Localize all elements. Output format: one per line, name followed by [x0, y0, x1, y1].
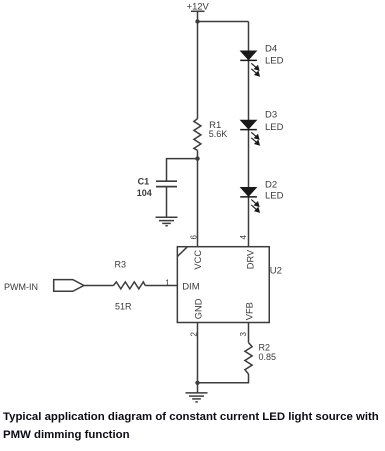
- svg-text:LED: LED: [265, 56, 284, 67]
- svg-text:C1: C1: [138, 176, 150, 186]
- svg-text:D3: D3: [265, 110, 277, 121]
- svg-text:U2: U2: [270, 266, 282, 277]
- svg-text:1: 1: [165, 279, 170, 288]
- svg-text:VCC: VCC: [193, 250, 203, 270]
- svg-text:VFB: VFB: [245, 302, 255, 320]
- svg-text:5.6K: 5.6K: [209, 129, 228, 139]
- svg-text:6: 6: [189, 235, 198, 240]
- svg-text:104: 104: [137, 188, 152, 198]
- svg-text:D2: D2: [265, 180, 277, 191]
- svg-text:LED: LED: [265, 190, 284, 201]
- svg-text:DIM: DIM: [182, 282, 200, 293]
- svg-text:51R: 51R: [115, 301, 132, 311]
- svg-text:4: 4: [239, 235, 248, 240]
- svg-text:R3: R3: [115, 259, 127, 269]
- svg-text:0.85: 0.85: [259, 352, 277, 362]
- svg-text:DRV: DRV: [245, 249, 255, 269]
- svg-text:+12V: +12V: [187, 0, 210, 11]
- svg-text:PWM-IN: PWM-IN: [4, 282, 38, 292]
- svg-text:D4: D4: [265, 43, 277, 54]
- svg-text:3: 3: [239, 332, 248, 337]
- svg-text:GND: GND: [193, 298, 203, 319]
- svg-text:LED: LED: [265, 122, 284, 133]
- svg-text:2: 2: [189, 332, 198, 337]
